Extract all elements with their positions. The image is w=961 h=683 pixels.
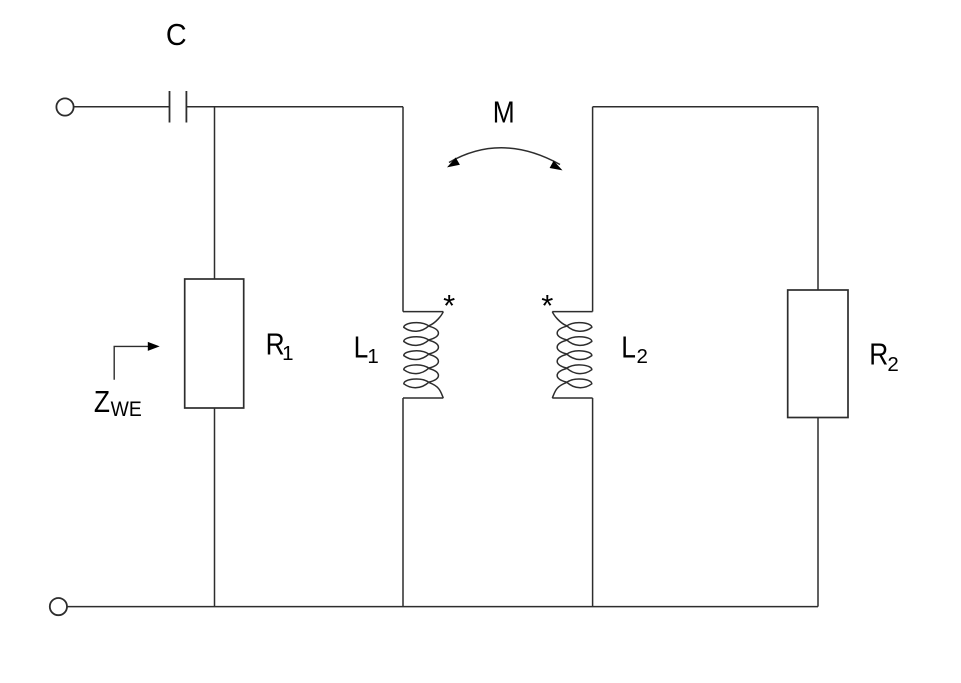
capacitor C plate 2	[185, 91, 187, 123]
wire L2 bottom	[592, 398, 594, 607]
wire L1 bottom	[402, 398, 404, 607]
svg-text:M: M	[493, 96, 515, 130]
wire capacitor to L1 top	[186, 106, 403, 108]
wire R2 bottom	[817, 418, 819, 607]
wire node junction down to R1	[214, 107, 216, 279]
svg-text:2: 2	[887, 353, 898, 376]
mutual inductance arrow M (double-headed arc)	[449, 148, 560, 165]
label L1	[354, 331, 379, 368]
label R2	[869, 338, 899, 376]
arrowhead left of M arc	[447, 158, 460, 168]
label R1	[266, 328, 294, 365]
resistor R1 body	[185, 279, 244, 408]
resistor R2 body	[788, 290, 848, 418]
label M	[493, 96, 515, 130]
label L2	[621, 331, 648, 368]
wire L2 top	[592, 107, 594, 312]
wire bottom rail	[67, 606, 818, 608]
svg-text:Z: Z	[94, 385, 110, 419]
svg-text:L: L	[621, 331, 636, 365]
wire L2 top corner	[552, 311, 592, 313]
wire L1 top	[402, 107, 404, 312]
wire right side down to R2	[817, 107, 819, 290]
svg-text:*: *	[443, 288, 455, 323]
arrowhead of Z_WE arrow	[148, 342, 160, 351]
svg-text:L: L	[354, 331, 369, 365]
capacitor C plate 1	[169, 91, 171, 123]
label C	[166, 18, 187, 52]
svg-text:1: 1	[367, 345, 378, 368]
svg-text:2: 2	[637, 345, 648, 368]
svg-text:*: *	[541, 288, 553, 323]
wire L2 bottom corner	[552, 397, 592, 399]
wire top of secondary loop	[593, 106, 818, 108]
terminal (top-left)	[56, 98, 73, 115]
inductor L1 coil	[404, 312, 444, 398]
svg-text:C: C	[166, 18, 187, 52]
svg-text:WE: WE	[111, 399, 142, 422]
terminal (bottom-left)	[50, 598, 67, 615]
wire L1 top corner	[403, 311, 443, 313]
svg-text:R: R	[869, 338, 888, 372]
wire top-left to capacitor	[74, 106, 170, 108]
label Z_WE	[94, 385, 142, 421]
wire L1 bottom corner	[403, 397, 443, 399]
inductor L2 coil	[552, 312, 592, 398]
arrowhead right of M arc	[550, 161, 563, 171]
arrow Z_WE pointing to R1	[114, 346, 150, 379]
wire R1 bottom	[214, 408, 216, 607]
svg-text:1: 1	[282, 342, 293, 365]
